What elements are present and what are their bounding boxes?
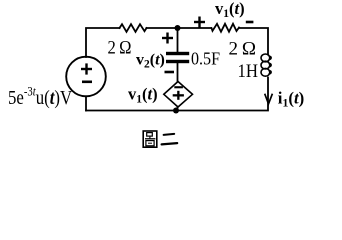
caption figure-two glyph TU (drawn)	[143, 131, 157, 147]
polarity minus below capacitor	[165, 71, 175, 74]
wire top-right segment	[240, 28, 269, 55]
svg-text:v1(t): v1(t)	[215, 0, 245, 20]
wire diamond-to-bottom segment	[177, 107, 179, 111]
svg-text:v1(t): v1(t)	[128, 85, 158, 106]
node junction dot bottom	[173, 108, 179, 114]
capacitor C1 plates	[166, 52, 189, 63]
polarity plus inside source	[81, 63, 92, 74]
polarity plus left of v1(t) top	[194, 17, 205, 28]
svg-text:v2(t): v2(t)	[136, 52, 165, 71]
svg-text:2 Ω: 2 Ω	[229, 39, 257, 60]
voltage source VS circle	[66, 57, 106, 97]
svg-text:0.5F: 0.5F	[191, 49, 220, 69]
wire capacitor branch upper	[177, 28, 179, 52]
polarity minus inside diamond	[174, 86, 183, 88]
svg-text:2 Ω: 2 Ω	[108, 37, 132, 58]
svg-text:i1(t): i1(t)	[278, 89, 305, 110]
resistor R2	[212, 24, 240, 32]
wire top-left segment	[86, 28, 120, 57]
svg-text:5e-3tu(t)V: 5e-3tu(t)V	[8, 83, 73, 109]
wire capacitor branch lower	[177, 63, 179, 82]
dependent source D1 diamond	[164, 82, 193, 108]
svg-text:1H: 1H	[238, 61, 259, 82]
polarity minus right of v1(t) top	[246, 21, 254, 24]
wire source-bottom segment	[85, 96, 87, 110]
polarity minus inside source	[82, 81, 92, 84]
caption figure-two glyph ER (drawn)	[162, 134, 178, 145]
wire right-lower segment	[86, 78, 268, 111]
inductor L1 coil	[261, 54, 271, 76]
resistor R1	[120, 24, 147, 32]
polarity plus above capacitor	[162, 33, 173, 44]
node junction dot top	[175, 25, 181, 31]
wire top-middle segment	[147, 27, 212, 29]
arrowhead i1 current direction	[265, 95, 272, 104]
polarity plus inside diamond	[173, 91, 184, 100]
